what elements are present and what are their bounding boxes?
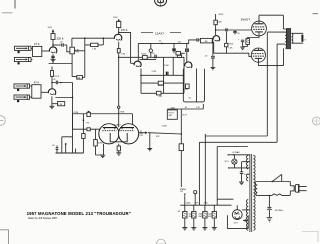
pentode O1 output tube <box>252 21 267 36</box>
svg-text:drawn by Jeff Gousse 1997: drawn by Jeff Gousse 1997 <box>28 217 58 220</box>
svg-text:4.7K: 4.7K <box>194 203 199 205</box>
svg-text:.05: .05 <box>184 107 187 109</box>
cathode network V1b <box>52 97 65 107</box>
svg-text:4.7M: 4.7M <box>183 89 188 91</box>
resistor R11 above V3a <box>176 51 180 55</box>
capacitor C15 dark <box>172 48 175 51</box>
wire tremolo rung 1 <box>119 56 184 58</box>
ground osc left <box>100 155 105 157</box>
node rung2 left <box>140 75 142 77</box>
pilot lamp LP1 <box>232 155 237 168</box>
wire cap to volume ch1 <box>64 45 70 52</box>
wire V2a cathode long drop to oscillator <box>118 42 120 127</box>
svg-text:200K: 200K <box>171 107 176 109</box>
wire coupling down to vib box <box>72 83 74 98</box>
wire V3b plate <box>215 14 217 35</box>
wire box to V1a grid <box>42 50 50 52</box>
rectifier V5 5Y3 <box>232 210 242 220</box>
svg-text:.02: .02 <box>53 79 56 81</box>
cathode network V1a <box>51 54 54 61</box>
wire box inner divider <box>196 69 198 102</box>
resistor R23 on inter vertical <box>82 134 85 139</box>
cathode cluster output tubes <box>241 36 259 47</box>
page corner bottom-right faint <box>302 232 318 243</box>
svg-text:450V: 450V <box>208 216 213 218</box>
capacitor C5 right of V3a <box>211 56 215 58</box>
network box right of V3a <box>183 69 204 102</box>
resistor R20 rung1 right <box>178 55 182 58</box>
wire to ground from V4 out <box>149 133 151 149</box>
capacitor C2 .02 coupling ch2 <box>56 81 57 85</box>
triode V3a <box>185 62 192 68</box>
svg-text:2.2M: 2.2M <box>152 71 157 73</box>
node mix resistor rail <box>103 37 105 39</box>
wire V3b cathode to O2 grid <box>214 42 252 57</box>
svg-text:1M: 1M <box>86 122 89 124</box>
triode V2b <box>134 61 141 67</box>
svg-text:6.3VAC: 6.3VAC <box>233 151 241 154</box>
wire V1a plate <box>52 30 54 48</box>
node vib feed <box>161 43 163 45</box>
svg-text:220 K: 220 K <box>57 36 64 40</box>
ground C11 <box>202 228 207 230</box>
potentiometer VR1 1M VOL ch1 <box>70 47 75 54</box>
wire tremolo rung 2 <box>141 74 184 76</box>
node mix junction <box>84 37 86 39</box>
wire plate coupling row ch2 <box>52 82 73 84</box>
ground below C5 <box>211 67 216 69</box>
wire cap to 1M box <box>199 39 201 41</box>
wire V2b plate up <box>137 43 139 61</box>
svg-text:2.2M: 2.2M <box>164 65 169 67</box>
node B+ arrow V2a <box>117 19 120 22</box>
svg-text:100K: 100K <box>141 54 146 56</box>
wire NFB to cathode row <box>226 47 228 53</box>
ground C10 <box>191 228 196 230</box>
svg-text:450V: 450V <box>189 216 194 218</box>
capacitor C18 small <box>56 148 59 150</box>
node varistor osc join <box>181 133 183 135</box>
switch SW1 on-off <box>272 174 282 182</box>
dual triode V4 12AX7 oscillator envelope <box>99 124 119 144</box>
svg-text:285V: 285V <box>219 14 224 16</box>
wire V4 cathode drop <box>118 144 120 153</box>
wire lamp rails <box>228 155 249 168</box>
svg-text:47 K: 47 K <box>34 81 40 85</box>
wire stub 75.6 <box>75 149 77 154</box>
dash left of 12AX7 <box>141 32 153 34</box>
svg-text:270 K: 270 K <box>121 28 128 32</box>
wire osc inter vertical <box>82 114 84 153</box>
varistor VR3 <box>179 144 183 187</box>
capacitor C17 below rail <box>233 30 237 34</box>
svg-text:47 K: 47 K <box>34 42 40 46</box>
V4 right plate bar <box>120 127 134 129</box>
capacitor C11 filter 3 <box>203 205 207 227</box>
wire rect to PT arrow <box>243 219 248 221</box>
svg-text:220K: 220K <box>158 85 163 87</box>
wire V3a right coupling <box>212 41 214 56</box>
svg-text:170V: 170V <box>113 17 118 19</box>
wire V4 left bottom drop <box>96 144 104 155</box>
wire osc left branch <box>73 114 102 129</box>
capacitor C13 line .047 <box>267 195 271 218</box>
wire V2a plate <box>118 19 120 35</box>
T2 left winding mid <box>246 174 248 181</box>
svg-text:220K: 220K <box>186 203 191 205</box>
wire mix resistor stubs <box>85 38 104 45</box>
svg-text:SW: SW <box>169 115 172 117</box>
capacitor C14 vib feed <box>197 38 198 41</box>
wire varistor feed vertical <box>180 109 182 144</box>
ground V4 out <box>147 148 152 150</box>
wire B+ filter rail <box>180 204 231 206</box>
svg-text:12AX7: 12AX7 <box>155 32 164 36</box>
node bias <box>65 143 67 145</box>
ground V4 cathode <box>116 153 121 155</box>
arrow drop A <box>184 194 186 196</box>
wire tremolo rung 3 <box>141 82 184 84</box>
triode V1b <box>48 89 55 95</box>
ground V1b <box>49 106 54 108</box>
svg-text:1M: 1M <box>77 78 80 80</box>
wire V2a plate to V2b grid <box>119 32 135 63</box>
transformer T1 output core <box>286 28 290 49</box>
resistor R24 inside box <box>186 84 190 89</box>
wire grid rail V2a <box>72 37 114 39</box>
resistor R21 plate V3b <box>214 20 217 25</box>
svg-text:470K: 470K <box>228 44 233 46</box>
wire into V3a plate <box>186 43 188 62</box>
capacitor C12 filter 4 <box>212 205 216 227</box>
wire bias branch <box>62 137 73 153</box>
wire mixer bus vertical <box>84 38 86 77</box>
svg-text:2.2M: 2.2M <box>74 112 79 114</box>
page corner bottom-left <box>0 230 9 244</box>
node coupling junction <box>60 82 62 84</box>
wire C5 to ground <box>212 58 214 67</box>
wire bias branch 2 <box>65 144 67 153</box>
wire varistor row <box>167 104 203 109</box>
ground output cathode <box>240 47 245 49</box>
ground C9 <box>182 228 187 230</box>
capacitor C3 .02 rung1 <box>155 55 156 59</box>
wire ladder mid vertical <box>163 57 165 93</box>
wire AC top <box>257 182 290 186</box>
wire rectifier to rail <box>236 205 238 210</box>
wire V2b plate hook right <box>140 58 157 60</box>
resistor R3 47K grid box ch2 <box>32 85 41 99</box>
wire ground bus ch1 <box>49 62 73 64</box>
wire osc left vertical <box>95 129 97 155</box>
resistor R2 220K plate ch1 <box>51 34 55 40</box>
resistor R14 on branch <box>87 128 90 131</box>
svg-text:1 M: 1 M <box>92 49 96 51</box>
V4 cathode U <box>110 133 127 142</box>
capacitor C19 rung2 dark <box>166 72 168 75</box>
resistor R19 V2a cathode <box>117 49 120 53</box>
wire rail to O1 grid <box>216 29 252 31</box>
node rung1 junction <box>118 57 120 59</box>
svg-text:1957 MAGNATONE MODEL 213 "TROU: 1957 MAGNATONE MODEL 213 "TROUBADOUR" <box>27 211 131 216</box>
punch hole left edge <box>0 116 5 126</box>
component grid cap circle <box>150 43 152 49</box>
wire vol2 to mix bus <box>83 76 85 78</box>
wire V3a top network <box>175 52 184 54</box>
node osc inter <box>83 119 85 121</box>
V4 left plate bar <box>103 127 117 129</box>
T1 primary winding <box>283 15 286 48</box>
wire ladder vertical 2.2M branch <box>172 57 174 75</box>
capacitor C9 filter 1 <box>183 205 187 227</box>
transformer T2 primary winding <box>255 182 257 196</box>
node plate junction <box>52 44 54 46</box>
capacitor C16 NFB on rail <box>226 28 227 31</box>
wire oscillator box top <box>73 113 133 115</box>
wire ground bus bottom left <box>56 152 84 154</box>
potentiometer VR2 1M VOL ch2 <box>77 76 83 80</box>
svg-text:100K: 100K <box>162 126 167 128</box>
wire O2 plate to OT bottom <box>258 48 283 65</box>
wire feedback L2 <box>199 44 285 142</box>
arrow vib out <box>145 131 148 134</box>
resistor R15 6.8M osc <box>94 140 98 147</box>
resistor R7 100K rung1 <box>143 55 148 59</box>
svg-text:470K: 470K <box>177 55 182 57</box>
wire C7 to varistor <box>148 133 181 134</box>
jack J3 input 3 <box>14 84 30 91</box>
jack J4 input 4 <box>14 95 30 102</box>
wire jacks to box ch2 <box>30 86 32 97</box>
V4 grid dashes <box>102 130 134 132</box>
wire R12 to V3b <box>211 40 214 42</box>
svg-text:450V: 450V <box>198 216 203 218</box>
T2 right winding <box>253 155 255 230</box>
wire varistor drive <box>173 43 175 48</box>
svg-text:12AX7: 12AX7 <box>114 124 121 127</box>
svg-text:1M: 1M <box>205 41 208 43</box>
wire bus to vol2 <box>72 64 77 77</box>
resistor R16 V4 cathode <box>117 146 120 151</box>
resistor R10 rung4 <box>156 91 161 95</box>
T2 left winding top <box>246 155 248 169</box>
terminal circle on 270K line <box>118 106 120 108</box>
wire plate to cap <box>53 44 61 46</box>
wire NFB down <box>226 31 228 43</box>
triode V2a <box>114 34 121 40</box>
svg-text:220 K: 220 K <box>54 76 60 78</box>
wire ladder right vertical <box>183 57 185 93</box>
wire V1b output <box>55 98 72 114</box>
wire drop 4.7K column <box>198 142 200 205</box>
resistor R5 1M mixing <box>91 43 99 46</box>
dash top-right <box>313 13 319 15</box>
tube V6 cropped top <box>155 0 167 6</box>
svg-text:1.5K: 1.5K <box>228 47 233 49</box>
capacitor C10 filter 2 <box>192 205 196 227</box>
terminal circle drop B <box>194 191 197 194</box>
punch hole right edge <box>313 117 320 125</box>
rectifier V5 5Y3 socket box <box>227 215 248 228</box>
svg-text:100K: 100K <box>217 21 222 23</box>
wire O1 plate to OT <box>259 15 283 21</box>
ground C12 <box>212 228 217 230</box>
scan corner mark top-left <box>14 0 16 9</box>
capacitor C8 heater bypass <box>240 162 250 182</box>
resistor R22 NFB <box>225 43 228 47</box>
node V1b output <box>72 97 74 99</box>
wire V2b cathode <box>140 69 142 94</box>
wire tremolo rung 4 <box>141 92 184 94</box>
resistor R4 220K plate ch2 <box>51 71 54 77</box>
svg-text:#47 L: #47 L <box>224 161 230 163</box>
wire vibrato feed <box>138 40 196 44</box>
speaker SP1 <box>292 33 304 43</box>
ground heater <box>239 182 244 184</box>
resistor R1 47K grid box ch1 <box>33 46 42 56</box>
transformer T2 power core <box>250 154 252 232</box>
resistor R12 1M grid V3b <box>200 38 212 43</box>
wire osc left column long <box>72 114 74 153</box>
scan gray tick top-left <box>2 12 13 14</box>
capacitor C1 .02 coupling ch1 <box>62 43 64 47</box>
ground C13 <box>267 218 273 223</box>
jack J5 footswitch box <box>167 110 177 119</box>
T2 left winding bottom <box>246 200 248 231</box>
wire vol1 bottom to bus <box>71 54 73 64</box>
wire rect top link <box>242 209 250 211</box>
wire AC bottom <box>257 191 290 196</box>
wire box to V1b grid <box>41 91 48 93</box>
capacitor C4 dark above V3a <box>186 48 188 52</box>
jack J1 input 1 <box>15 46 32 53</box>
wire vol1 wiper to mix bus <box>74 50 84 52</box>
wire vol1 top feed <box>71 38 73 47</box>
wire feedback L1 <box>205 32 285 136</box>
svg-text:5V6GT: 5V6GT <box>241 18 250 22</box>
node V1b plate out <box>51 82 53 84</box>
power supply box <box>217 147 248 206</box>
node V3b plate rail <box>215 29 217 31</box>
dash right of 12AX7 <box>170 32 181 34</box>
svg-text:VOL: VOL <box>75 52 79 54</box>
punch hole bottom edge <box>156 239 165 244</box>
wire jacks to box <box>31 48 33 59</box>
plug P1 <box>290 184 306 193</box>
wire V4 right plate out <box>139 132 145 134</box>
svg-text:.047/600v: .047/600v <box>275 210 284 212</box>
svg-text:6.8M: 6.8M <box>98 143 103 145</box>
node lamp rail dots <box>228 154 229 155</box>
svg-text:.05: .05 <box>158 41 161 43</box>
svg-text:170V: 170V <box>48 27 53 29</box>
node V2a plate out <box>118 32 120 34</box>
wire drop 1.2K column <box>204 134 206 205</box>
triode V1a <box>49 47 56 53</box>
wire power inner <box>217 198 233 200</box>
pentode O2 output tube <box>251 48 265 62</box>
ground V1a cathode <box>51 59 56 61</box>
resistor R6 270K plate V2a <box>117 21 121 27</box>
wire V1b plate up <box>51 67 53 90</box>
jack J2 input 2 <box>15 57 32 64</box>
svg-text:270K: 270K <box>120 111 125 113</box>
wire osc pin2 <box>132 114 134 125</box>
resistor R13 above top edge <box>87 111 90 117</box>
node B+ arrow ch1 <box>52 29 55 32</box>
resistor R9 rung3 <box>158 81 163 85</box>
svg-text:1.2K: 1.2K <box>204 203 209 205</box>
triode V3b driver <box>213 36 220 42</box>
T1 secondary winding <box>292 33 293 43</box>
